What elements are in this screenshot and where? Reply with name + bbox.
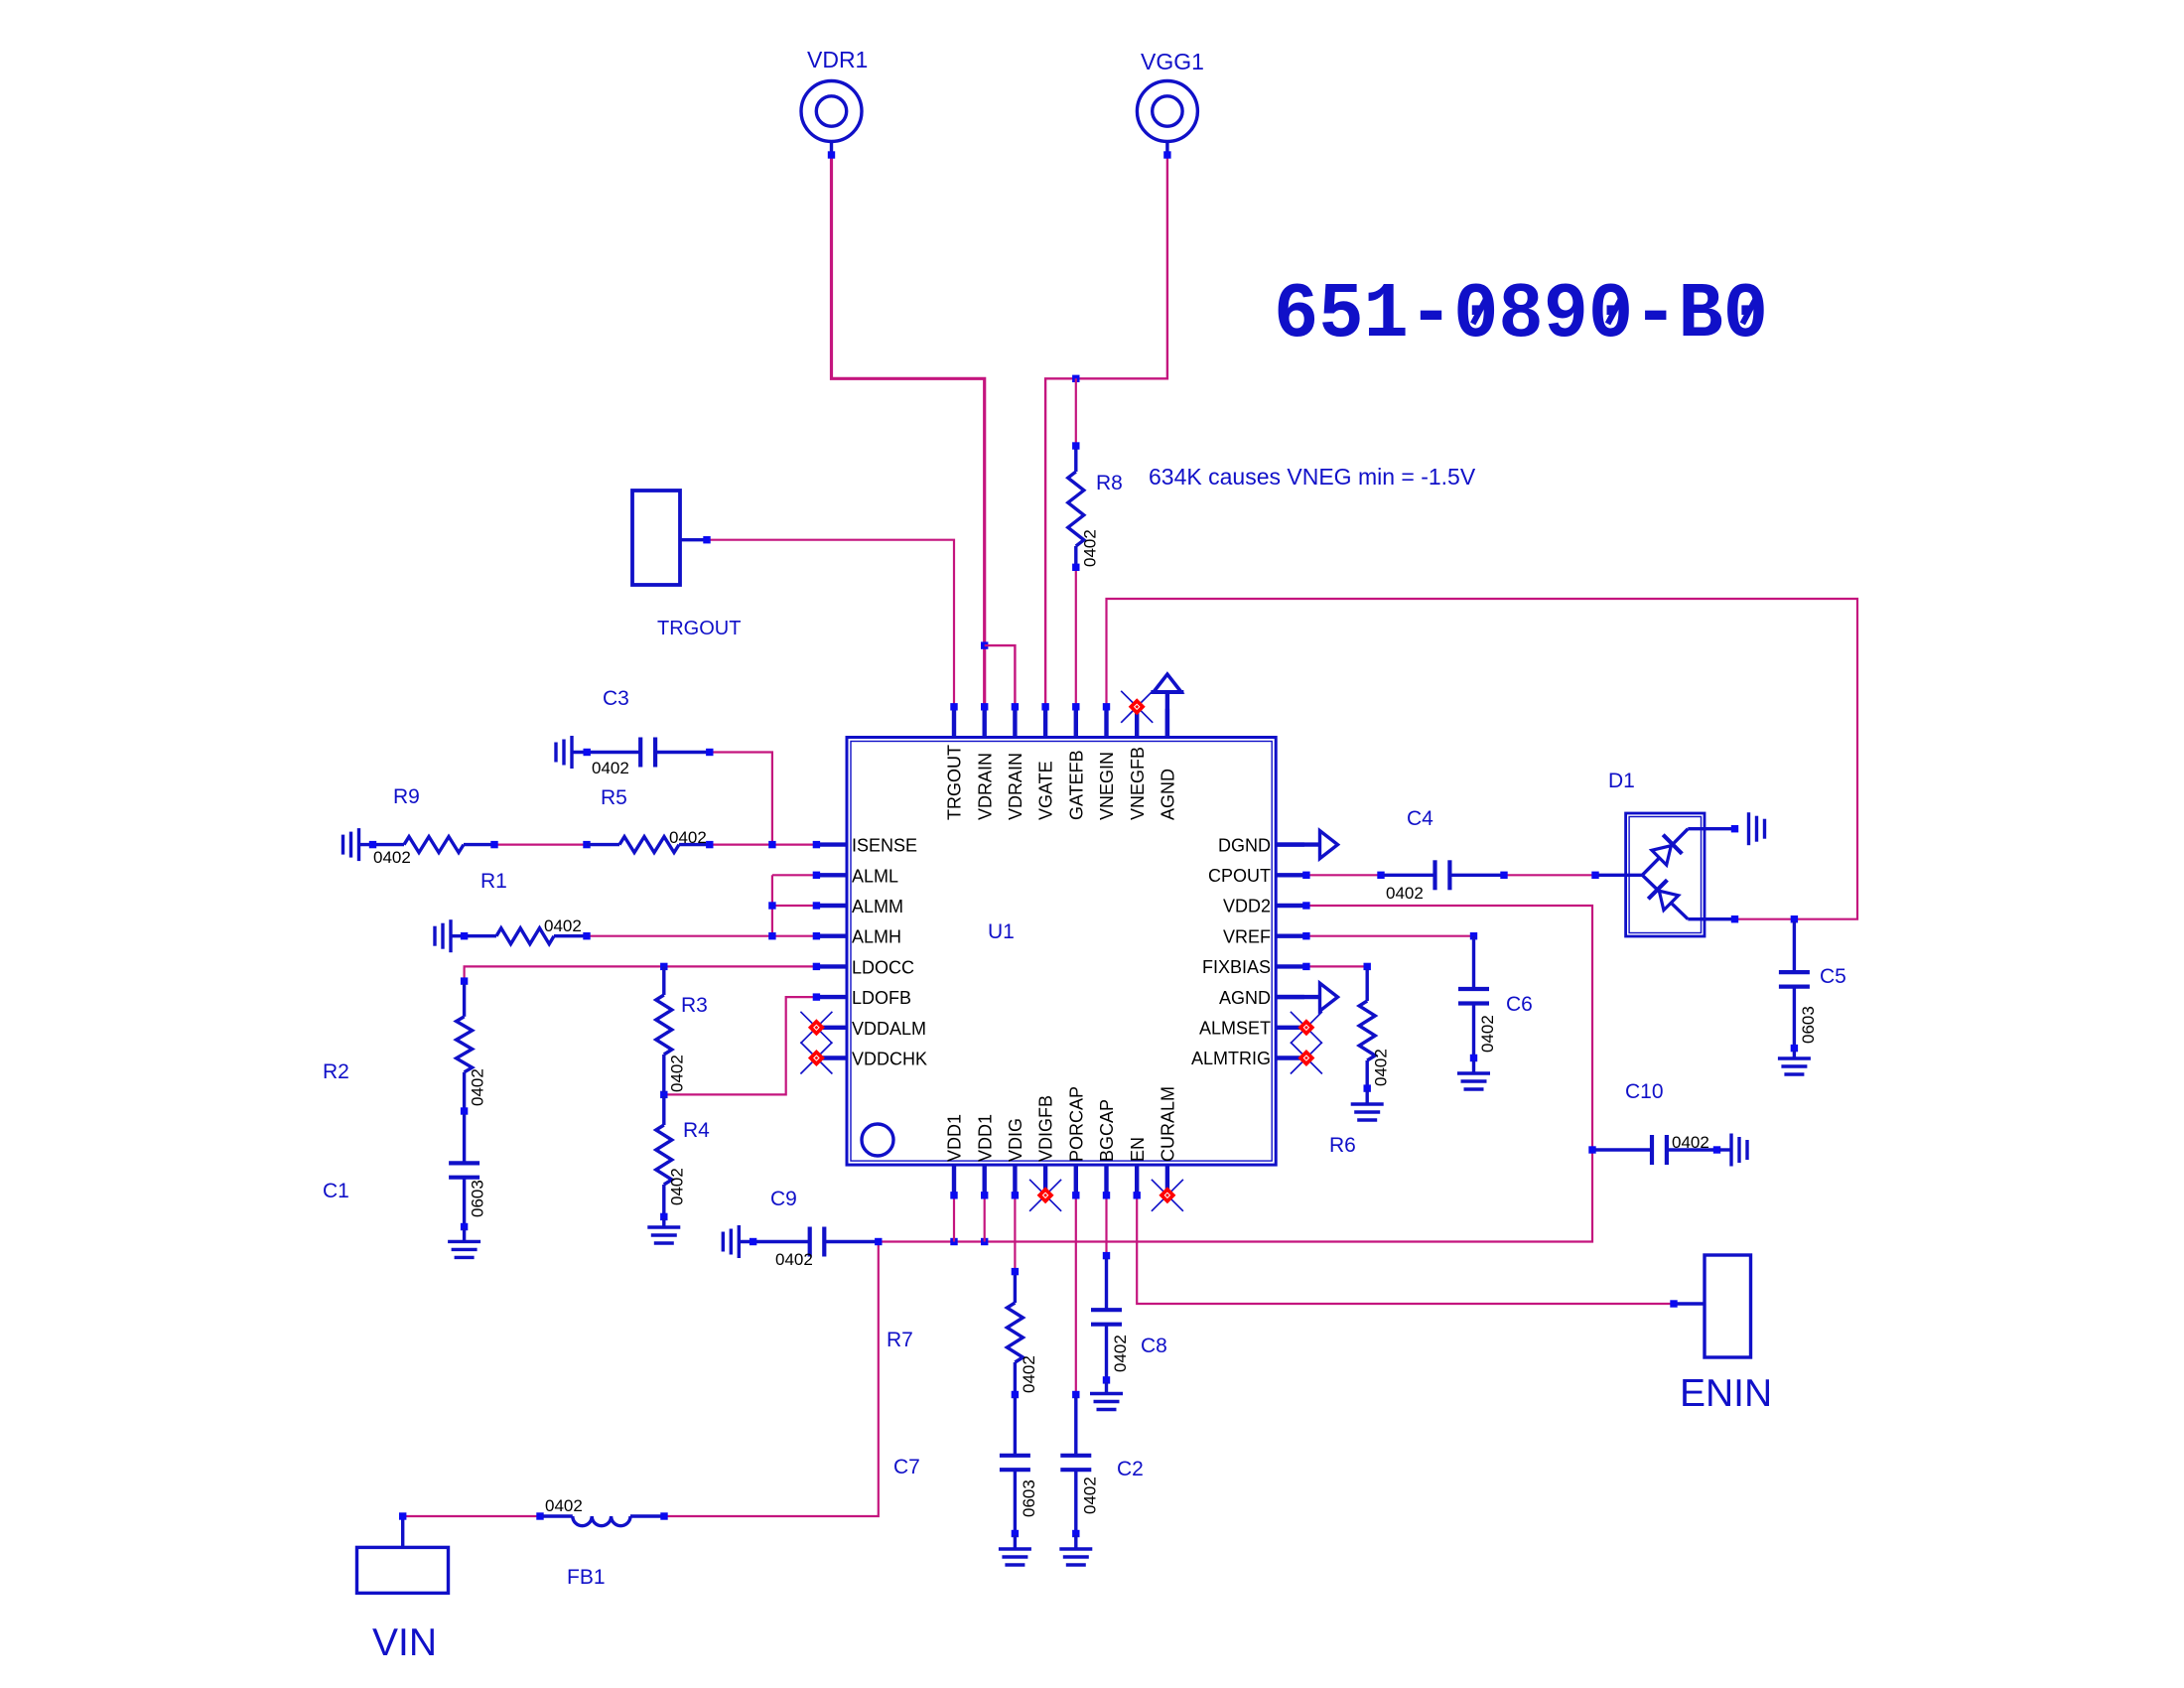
wire C4 to D1 xyxy=(1504,874,1595,876)
svg-text:634K causes VNEG min = -1.5V: 634K causes VNEG min = -1.5V xyxy=(1149,464,1476,490)
svg-text:LDOFB: LDOFB xyxy=(852,988,911,1008)
wire LDOCC net (R2/R3 to LDOCC pin) xyxy=(465,966,817,981)
U1 bottom pin VDIG xyxy=(1013,1165,1017,1194)
svg-text:0402: 0402 xyxy=(668,1168,687,1205)
wire junction VDRAIN branch xyxy=(981,641,988,648)
svg-text:CURALM: CURALM xyxy=(1159,1086,1178,1162)
wire junction VDD2/C10 xyxy=(1588,1146,1595,1153)
svg-text:0402: 0402 xyxy=(544,916,582,935)
U1 left pin ISENSE xyxy=(818,842,847,846)
wire VNEGIN pin to D1 (net VNEG) xyxy=(1107,599,1858,919)
U1 top pin VNEGIN xyxy=(1104,709,1108,738)
svg-text:VREF: VREF xyxy=(1223,926,1271,946)
svg-text:0402: 0402 xyxy=(1386,884,1424,903)
pin terminal PORCAP bottom xyxy=(1072,1192,1079,1198)
capacitor C5 xyxy=(1793,921,1796,972)
svg-text:C7: C7 xyxy=(893,1456,920,1478)
pin terminal LDOFB left xyxy=(813,993,820,1000)
U1 pin-1 indicator circle xyxy=(862,1124,893,1156)
resistor R5 xyxy=(583,841,590,848)
wire junction bus VDD1 b xyxy=(981,1238,988,1245)
pin terminal CPOUT right xyxy=(1302,872,1309,879)
pin terminal VNEGIN top xyxy=(1103,703,1110,710)
ground below C8 xyxy=(1105,1382,1108,1394)
capacitor C1 xyxy=(463,1114,466,1163)
ENIN terminal xyxy=(1670,1300,1677,1307)
U1 left pin ALMM xyxy=(818,904,847,908)
wire R5 to ISENSE pin xyxy=(710,843,817,845)
U1 right pin VDD2 xyxy=(1276,904,1304,908)
wire R9 to R5 (ISENSE net) xyxy=(494,843,587,845)
U1 top pin TRGOUT xyxy=(952,709,956,738)
U1 right pin ALMSET xyxy=(1276,1026,1304,1030)
wire junction ISENSE/C3 xyxy=(768,841,775,848)
pin terminal ALMM left xyxy=(813,902,820,909)
VGG1 terminal xyxy=(1163,151,1170,158)
pin terminal GATEFB top xyxy=(1072,703,1079,710)
svg-text:0603: 0603 xyxy=(1020,1479,1038,1517)
pin terminal VDRAIN top xyxy=(981,703,988,710)
no-connect X ALMTRIG xyxy=(1291,1043,1322,1074)
wire VDR1 to VDRAIN pins (net VDRAIN) xyxy=(832,155,985,707)
svg-text:GATEFB: GATEFB xyxy=(1066,750,1086,820)
pin terminal VDRAIN top xyxy=(1012,703,1019,710)
wire ALML-ALMM-ALMH vertical tie xyxy=(771,875,773,935)
svg-text:0402: 0402 xyxy=(775,1250,813,1269)
wire VDD2 pin to VDD1 bus xyxy=(879,906,1592,1242)
capacitor C3 xyxy=(570,736,573,769)
U1 left pin LDOCC xyxy=(818,964,847,968)
resistor R8 xyxy=(1072,442,1079,449)
svg-text:PORCAP: PORCAP xyxy=(1066,1086,1086,1162)
svg-text:C5: C5 xyxy=(1820,965,1846,988)
pin terminal VGATE top xyxy=(1041,703,1048,710)
capacitor C6 xyxy=(1470,932,1477,939)
svg-text:R3: R3 xyxy=(681,994,708,1017)
svg-text:0402: 0402 xyxy=(592,759,629,777)
pin terminal TRGOUT top xyxy=(950,703,957,710)
svg-text:AGND: AGND xyxy=(1159,769,1178,820)
U1 right pin FIXBIAS xyxy=(1276,964,1304,968)
U1 top pin VGATE xyxy=(1043,709,1047,738)
svg-text:0402: 0402 xyxy=(1080,529,1099,567)
resistor R3 xyxy=(662,966,665,995)
wire VDIG pin to R7 xyxy=(1014,1196,1016,1272)
svg-text:0603: 0603 xyxy=(469,1180,487,1217)
svg-text:0402: 0402 xyxy=(545,1496,583,1515)
svg-text:VGATE: VGATE xyxy=(1036,761,1056,820)
pin terminal EN bottom xyxy=(1134,1192,1141,1198)
svg-text:0603: 0603 xyxy=(1799,1006,1818,1044)
svg-text:0402: 0402 xyxy=(469,1068,487,1106)
svg-text:R4: R4 xyxy=(683,1119,710,1142)
pin terminal FIXBIAS right xyxy=(1302,963,1309,970)
U1 left pin LDOFB xyxy=(818,995,847,999)
capacitor C10 xyxy=(1595,1148,1652,1151)
op-amp U1 body (IC box) xyxy=(847,738,1276,1166)
wire VREF pin to C6 xyxy=(1306,935,1474,937)
U1 top pin VNEGFB xyxy=(1135,707,1139,738)
ground right of C10 xyxy=(1719,1148,1731,1151)
svg-text:VDIG: VDIG xyxy=(1006,1118,1025,1162)
wire VDRAIN branch to second VDRAIN pin xyxy=(985,645,1016,707)
U1 left pin ALMH xyxy=(818,934,847,938)
svg-text:R1: R1 xyxy=(480,870,507,893)
U1 bottom pin VDD1 xyxy=(983,1165,987,1194)
svg-text:EN: EN xyxy=(1128,1137,1148,1162)
svg-text:0402: 0402 xyxy=(1372,1049,1391,1086)
wire R8 bottom to GATEFB pin xyxy=(1075,567,1077,707)
pin terminal VDIG bottom xyxy=(1012,1192,1019,1198)
U1 bottom pin BGCAP xyxy=(1104,1165,1108,1194)
connector VIN box xyxy=(357,1547,449,1593)
U1 bottom pin EN xyxy=(1135,1165,1139,1194)
svg-text:FB1: FB1 xyxy=(567,1566,606,1589)
connector VDR1 xyxy=(801,81,862,142)
svg-text:VDRAIN: VDRAIN xyxy=(1006,753,1025,820)
U1 top pin VDRAIN xyxy=(983,709,987,738)
inductor FB1 xyxy=(536,1512,543,1519)
wire C9/R7 node to C7 and FB1 xyxy=(664,1242,879,1517)
pin terminal VDD2 right xyxy=(1302,902,1309,909)
wire to ALMM pin xyxy=(772,905,817,907)
U1 top pin GATEFB xyxy=(1074,709,1078,738)
svg-text:VDRAIN: VDRAIN xyxy=(975,753,995,820)
pin terminal ISENSE left xyxy=(813,841,820,848)
svg-text:VDIGFB: VDIGFB xyxy=(1036,1095,1056,1162)
wire EN pin to ENIN connector xyxy=(1137,1196,1674,1304)
U1 left pin VDDCHK xyxy=(818,1055,847,1059)
wire VGG1 to VGATE pin (net VGATE) xyxy=(1045,155,1167,707)
resistor R7 xyxy=(1012,1268,1019,1275)
wire VDD1 pin drop a xyxy=(953,1196,955,1242)
TRGOUT terminal xyxy=(703,536,710,543)
wire VDD1 pin drop b xyxy=(984,1196,986,1242)
svg-text:VIN: VIN xyxy=(372,1621,437,1664)
U1 bottom pin VDIGFB xyxy=(1043,1165,1047,1194)
U1 right pin CPOUT xyxy=(1276,873,1304,877)
svg-text:0402: 0402 xyxy=(668,1055,687,1092)
pin terminal ALMH left xyxy=(813,932,820,939)
svg-text:R5: R5 xyxy=(601,786,627,809)
svg-text:ALMH: ALMH xyxy=(852,927,901,947)
svg-text:ALMM: ALMM xyxy=(852,897,903,916)
resistor R6 xyxy=(1364,963,1371,970)
U1 bottom pin CURALM xyxy=(1165,1165,1169,1194)
svg-text:DGND: DGND xyxy=(1218,835,1271,855)
ground DGND symbol (right triangle) xyxy=(1276,842,1319,846)
svg-text:C8: C8 xyxy=(1141,1335,1167,1357)
svg-text:R2: R2 xyxy=(323,1060,349,1083)
wire junction ALMH xyxy=(768,932,775,939)
no-connect X VNEGFB xyxy=(1121,691,1153,723)
svg-text:VDD1: VDD1 xyxy=(975,1114,995,1162)
wire R1 to ALMH pin xyxy=(587,935,816,937)
U1 left pin VDDALM xyxy=(818,1026,847,1030)
no-connect X ALMSET xyxy=(1291,1012,1322,1044)
svg-text:TRGOUT: TRGOUT xyxy=(945,745,965,820)
resistor R4 xyxy=(662,1096,665,1125)
svg-text:C4: C4 xyxy=(1407,807,1433,830)
pin terminal LDOCC left xyxy=(813,963,820,970)
wire C3 to ISENSE net xyxy=(710,753,772,845)
capacitor C9 xyxy=(738,1225,741,1258)
svg-text:VDR1: VDR1 xyxy=(807,47,868,72)
wire to ALML pin xyxy=(772,874,817,876)
resistor R1 xyxy=(449,919,452,952)
svg-text:CPOUT: CPOUT xyxy=(1208,866,1271,886)
capacitor C2 xyxy=(1072,1391,1079,1398)
ground below C2 xyxy=(1074,1535,1077,1549)
diode D1 box xyxy=(1626,813,1705,936)
svg-text:D1: D1 xyxy=(1608,770,1635,792)
svg-text:0402: 0402 xyxy=(1111,1335,1130,1372)
wire junction VGATE/R8 xyxy=(1072,375,1079,382)
svg-text:VDD1: VDD1 xyxy=(945,1114,965,1162)
resistor R2 xyxy=(461,977,468,984)
ground below C7 xyxy=(1014,1535,1017,1549)
svg-text:VDDCHK: VDDCHK xyxy=(852,1050,927,1069)
U1 right pin DGND xyxy=(1276,842,1304,846)
wire junction ALMM xyxy=(768,902,775,909)
U1 top pin AGND xyxy=(1165,709,1169,738)
svg-text:R6: R6 xyxy=(1329,1134,1356,1157)
pin terminal BGCAP bottom xyxy=(1103,1192,1110,1198)
D1 upper diode xyxy=(1642,829,1688,876)
D1 lower diode xyxy=(1642,875,1688,918)
svg-text:VDD2: VDD2 xyxy=(1223,897,1271,916)
wire R8 top to VGATE net xyxy=(1075,378,1077,446)
svg-text:TRGOUT: TRGOUT xyxy=(657,618,741,639)
resistor R9 xyxy=(357,828,360,861)
svg-text:C10: C10 xyxy=(1625,1080,1664,1103)
svg-text:C1: C1 xyxy=(323,1180,349,1202)
svg-text:FIXBIAS: FIXBIAS xyxy=(1202,957,1271,977)
no-connect X VDDCHK xyxy=(800,1043,832,1074)
svg-text:AGND: AGND xyxy=(1219,988,1271,1008)
U1 left pin ALML xyxy=(818,873,847,877)
svg-text:BGCAP: BGCAP xyxy=(1097,1099,1117,1162)
ground below C6 xyxy=(1472,1060,1475,1073)
svg-text:651-0890-B0: 651-0890-B0 xyxy=(1274,270,1768,359)
svg-text:0402: 0402 xyxy=(373,848,411,867)
ground at D1 cathode xyxy=(1747,812,1750,845)
svg-text:0402: 0402 xyxy=(669,828,707,847)
ground below C1 xyxy=(463,1228,466,1241)
svg-text:0402: 0402 xyxy=(1020,1355,1038,1393)
capacitor C8 xyxy=(1103,1252,1110,1259)
pin terminal VDD1 bottom xyxy=(981,1192,988,1198)
wire TRGOUT connector to TRGOUT pin xyxy=(707,540,954,707)
svg-text:U1: U1 xyxy=(988,920,1015,943)
svg-text:ALMTRIG: ALMTRIG xyxy=(1191,1049,1271,1068)
wire junction R3/R4 xyxy=(660,1091,667,1098)
U1 bottom pin PORCAP xyxy=(1074,1165,1078,1194)
connector VGG1 xyxy=(1137,81,1197,142)
connector TRGOUT box xyxy=(632,491,680,585)
pin terminal ALML left xyxy=(813,872,820,879)
svg-text:C3: C3 xyxy=(603,687,629,710)
pin terminal VREF right xyxy=(1302,932,1309,939)
wire PORCAP pin to C2 xyxy=(1075,1196,1077,1395)
svg-text:C6: C6 xyxy=(1506,993,1533,1016)
svg-text:VNEGIN: VNEGIN xyxy=(1097,752,1117,820)
svg-text:ALMSET: ALMSET xyxy=(1199,1019,1271,1039)
svg-text:R9: R9 xyxy=(393,785,420,808)
no-connect X VDDALM xyxy=(800,1012,832,1044)
svg-text:VDDALM: VDDALM xyxy=(852,1019,926,1039)
power AGND arrow (top) xyxy=(1165,692,1169,738)
U1 right pin AGND xyxy=(1276,995,1304,999)
ground AGND symbol right (triangle) xyxy=(1276,995,1319,999)
wire FB1 to VIN connector xyxy=(403,1515,540,1517)
U1 top pin VDRAIN xyxy=(1013,709,1017,738)
VIN terminal xyxy=(399,1512,406,1519)
capacitor C7 xyxy=(1014,1397,1017,1456)
svg-text:ENIN: ENIN xyxy=(1680,1372,1772,1415)
wire FIXBIAS pin to R6 xyxy=(1306,965,1367,967)
svg-text:LDOCC: LDOCC xyxy=(852,957,914,977)
wire CPOUT pin to C4 xyxy=(1306,874,1381,876)
wire junction bus VDD1 a xyxy=(950,1238,957,1245)
wire BGCAP pin to C8 xyxy=(1105,1196,1107,1256)
svg-text:ISENSE: ISENSE xyxy=(852,836,917,856)
svg-text:0402: 0402 xyxy=(1478,1015,1497,1053)
svg-text:R8: R8 xyxy=(1096,472,1123,494)
pin terminal VDD1 bottom xyxy=(950,1192,957,1198)
no-connect X VDIGFB xyxy=(1029,1180,1061,1211)
svg-text:0402: 0402 xyxy=(1080,1477,1099,1514)
connector ENIN box xyxy=(1705,1255,1751,1357)
wire junction VNEG/C5 xyxy=(1791,915,1798,922)
U1 bottom pin VDD1 xyxy=(952,1165,956,1194)
U1 right pin VREF xyxy=(1276,934,1304,938)
VDR1 terminal xyxy=(828,151,835,158)
ground below R6 xyxy=(1365,1090,1368,1104)
D1 anode lead xyxy=(1591,872,1598,879)
no-connect X CURALM xyxy=(1152,1180,1183,1211)
ground below R4 xyxy=(662,1218,665,1227)
svg-text:VGG1: VGG1 xyxy=(1141,49,1204,74)
ground below C5 xyxy=(1793,1051,1796,1058)
svg-text:C2: C2 xyxy=(1117,1458,1144,1480)
svg-text:C9: C9 xyxy=(770,1188,797,1210)
svg-text:ALML: ALML xyxy=(852,866,898,886)
svg-text:0402: 0402 xyxy=(1672,1133,1709,1152)
wire junction LDOCC/R3 xyxy=(660,963,667,970)
wire R3/R4 to LDOFB pin xyxy=(664,997,817,1094)
capacitor C4 xyxy=(1377,872,1384,879)
svg-text:R7: R7 xyxy=(887,1329,913,1351)
svg-text:VNEGFB: VNEGFB xyxy=(1128,747,1148,820)
U1 right pin ALMTRIG xyxy=(1276,1055,1304,1059)
